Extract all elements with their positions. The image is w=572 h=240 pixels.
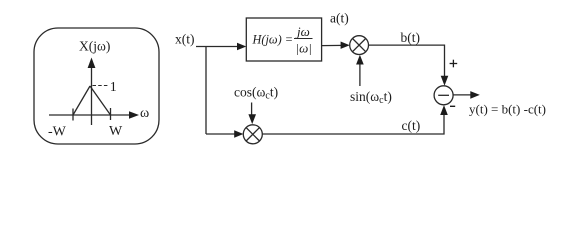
inset panel rounded box [34,28,159,144]
wire summer output y(t) [453,91,480,99]
svg-text:X(jω): X(jω) [79,39,110,54]
svg-text:b(t): b(t) [401,30,421,45]
svg-text:ω: ω [140,106,149,121]
svg-text:c(t): c(t) [402,118,421,133]
block H(jw) rectangle [246,18,321,61]
wire cos input down into M2 [248,103,256,125]
svg-text:1: 1 [110,80,117,95]
label minus [450,105,455,107]
svg-text:|ω|: |ω| [296,40,312,55]
summer S1 circle-minus [434,86,453,105]
triangle spectrum X(jw) [73,86,111,115]
spectrum vertical axis [88,58,96,126]
tick W [110,108,112,120]
svg-text:y(t) = b(t) -c(t): y(t) = b(t) -c(t) [469,102,546,117]
fraction bar [294,38,313,40]
spectrum horizontal axis omega [49,111,139,119]
svg-text:x(t): x(t) [175,32,195,47]
wire branch to multiplier M2 [206,130,243,137]
label plus [450,60,458,68]
wire x(t) to H block [196,43,246,50]
wire M2 to summer c(t) [262,105,448,134]
svg-text:sin(ωct): sin(ωct) [350,89,392,106]
wire M1 to summer b(t) [369,45,449,86]
svg-text:-W: -W [48,125,67,140]
wire branch down from x(t) [205,47,207,135]
svg-text:cos(ωct): cos(ωct) [234,85,278,102]
wire H block to multiplier M1 [322,42,350,49]
svg-text:W: W [109,124,123,139]
block H(jw) equation [252,24,312,56]
svg-text:jω: jω [295,24,310,39]
svg-text:H(jω) =: H(jω) = [252,33,294,47]
multiplier M1 circle-cross [350,36,369,55]
dashed level-1 line [93,85,109,87]
tick -W [72,109,74,121]
wire sin input up into M1 [356,55,364,86]
svg-text:a(t): a(t) [330,11,349,26]
multiplier M2 circle-cross [243,125,262,144]
